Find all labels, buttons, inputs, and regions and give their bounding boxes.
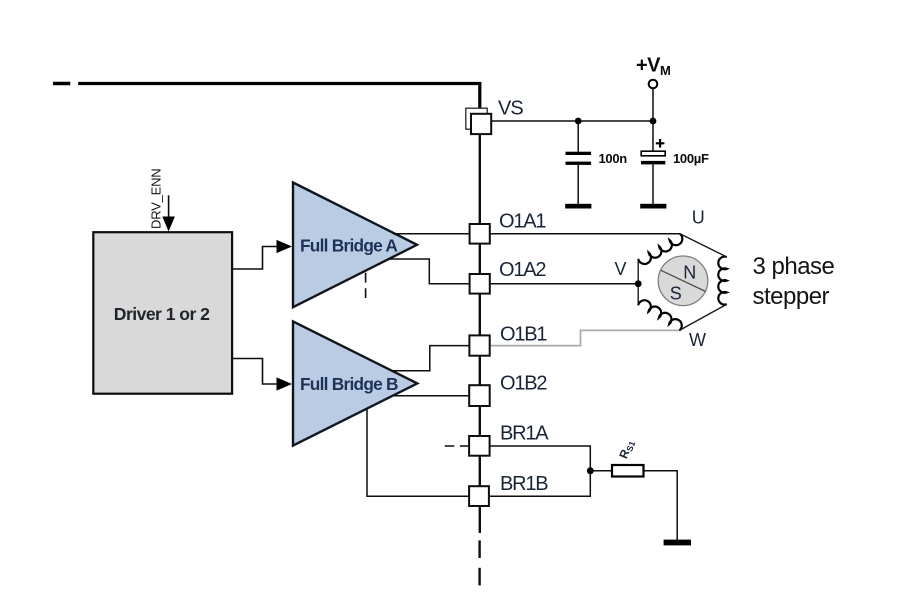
wire bridge A out to O1A1 <box>393 233 470 235</box>
ground for C1 <box>565 204 591 209</box>
arrow DRV_ENN into driver <box>168 195 170 219</box>
motor frame left edge <box>637 259 639 306</box>
wire: VS to supply node <box>491 120 653 122</box>
svg-text:BR1A: BR1A <box>500 423 549 445</box>
wire: supply rail leading dash <box>53 82 70 85</box>
arrowhead into bridge A <box>277 240 293 253</box>
main vertical bus wire <box>479 114 481 533</box>
svg-text:3 phase: 3 phase <box>753 253 835 280</box>
buffer triangle Full Bridge B <box>293 321 417 445</box>
motor frame upper right edge <box>680 234 727 257</box>
wire BR1B to sense node <box>489 471 591 496</box>
buffer triangle Full Bridge A <box>293 183 417 308</box>
capacitor C2 100uF polarized <box>641 121 665 204</box>
svg-text:O1B2: O1B2 <box>500 373 547 395</box>
wire driver to bridge A <box>232 247 277 270</box>
dashed continuation below bridge A <box>365 273 367 298</box>
terminal BR1A <box>469 436 490 456</box>
svg-text:O1A2: O1A2 <box>499 259 546 281</box>
capacitor C1 100n <box>566 121 592 204</box>
junction dot at VM tap <box>650 118 657 125</box>
wire bridge B out to O1B2 <box>394 395 469 397</box>
wire: VM circle to node <box>652 89 654 122</box>
svg-text:Full Bridge B: Full Bridge B <box>300 374 398 394</box>
svg-text:O1B1: O1B1 <box>500 324 547 346</box>
terminal O1B1 <box>469 335 489 355</box>
svg-text:Full Bridge A: Full Bridge A <box>300 236 398 256</box>
junction dot motor V <box>635 280 642 287</box>
wire bridge B out to O1B1 <box>392 346 470 371</box>
svg-text:W: W <box>689 330 706 350</box>
wire driver to bridge B <box>232 359 277 385</box>
svg-text:BR1B: BR1B <box>500 473 548 495</box>
svg-text:stepper: stepper <box>753 283 830 310</box>
terminal BR1B <box>469 486 489 506</box>
svg-text:N: N <box>683 262 696 282</box>
svg-text:VS: VS <box>498 97 523 119</box>
svg-text:100n: 100n <box>599 151 628 166</box>
wire BR1A to sense node <box>490 446 591 471</box>
dashed stub left of BR1A <box>445 445 469 447</box>
driver block <box>93 232 232 394</box>
bus dashed continuation <box>478 540 480 558</box>
wire O1B1 to motor W (gray) <box>490 330 680 345</box>
terminal VS <box>471 114 491 134</box>
svg-text:V: V <box>615 259 627 279</box>
terminal O1A1 <box>470 224 490 244</box>
motor winding V (right coil) <box>718 257 727 305</box>
wire resistor to ground <box>644 471 678 540</box>
motor winding W (bottom-left coil) <box>638 300 682 330</box>
motor winding U (top-left coil) <box>638 234 682 264</box>
wire: top supply rail to VS <box>78 84 480 115</box>
terminal O1B2 <box>469 385 490 406</box>
junction dot at 100n tap <box>575 118 582 125</box>
wire bridge B down to BR1B <box>367 410 469 497</box>
junction dot sense node <box>587 467 594 474</box>
wire node to resistor <box>590 470 612 472</box>
terminal O1A2 <box>470 274 490 294</box>
motor frame lower right edge <box>679 304 726 330</box>
ground for RS1 <box>664 540 691 546</box>
svg-text:S: S <box>670 284 682 304</box>
wire bridge A out to O1A2 <box>389 259 470 284</box>
svg-text:O1A1: O1A1 <box>499 211 546 233</box>
svg-text:DRV_ENN: DRV_ENN <box>149 169 164 230</box>
rotor divider line <box>661 270 706 291</box>
svg-text:U: U <box>692 208 705 228</box>
terminal VS shadow box <box>466 108 487 129</box>
svg-text:100µF: 100µF <box>673 151 709 166</box>
wire O1A1 to motor U <box>490 233 680 235</box>
ground for C2 <box>640 204 666 209</box>
wire O1A2 to motor V <box>490 283 638 285</box>
svg-text:Driver 1 or 2: Driver 1 or 2 <box>114 304 210 324</box>
arrowhead into bridge B <box>277 377 293 390</box>
motor rotor circle <box>658 256 708 306</box>
resistor RS1 <box>612 465 644 477</box>
terminal circle +VM <box>649 80 658 89</box>
